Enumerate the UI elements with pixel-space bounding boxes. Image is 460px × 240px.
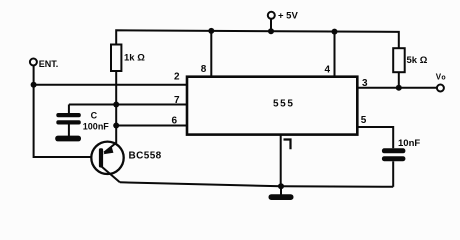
svg-text:6: 6 [171, 115, 177, 126]
svg-text:ENT.: ENT. [39, 59, 59, 69]
svg-text:C: C [91, 110, 98, 120]
svg-text:555: 555 [273, 99, 295, 110]
svg-text:1k Ω: 1k Ω [124, 53, 145, 64]
svg-text:o: o [441, 74, 445, 81]
svg-text:7: 7 [174, 95, 180, 106]
svg-text:8: 8 [201, 64, 207, 75]
svg-text:4: 4 [324, 65, 330, 76]
svg-text:+ 5V: + 5V [278, 11, 298, 22]
svg-text:100nF: 100nF [83, 121, 110, 131]
svg-text:5: 5 [361, 115, 367, 126]
svg-text:10nF: 10nF [398, 138, 420, 149]
svg-text:5k Ω: 5k Ω [407, 55, 428, 66]
svg-text:3: 3 [362, 78, 368, 89]
svg-text:BC558: BC558 [129, 151, 162, 162]
svg-text:2: 2 [174, 72, 180, 83]
